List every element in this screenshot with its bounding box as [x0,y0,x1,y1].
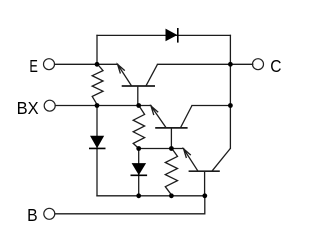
wire E lead [55,63,118,65]
node dot bottom x D2 [136,193,141,198]
node dot BX x Q1 base [136,103,141,108]
diode D2 (middle column, pointing down) [131,164,148,176]
wire left rail top segment [96,35,98,64]
terminal circle BX [44,100,55,111]
wire right rail [229,35,231,148]
diode D1 (left column, pointing down) [89,136,106,148]
node dot bottom x R3 [169,193,174,198]
transistor Q1 [118,64,158,105]
transistor Q3 [184,148,231,195]
svg-text:BX: BX [17,98,39,118]
resistor R2 [133,106,144,149]
resistor R1 [92,64,103,105]
svg-text:C: C [270,56,281,76]
node dot Q2 collector x right rail [228,103,233,108]
node dot E x left rail [95,62,100,67]
node dot BX x left rail [95,103,100,108]
node dot bottom x Q3 base x B [202,193,207,198]
node dot Q2 base x D2 [136,146,141,151]
wire Q2 collector line [192,105,230,107]
transistor Q2 [151,106,192,149]
terminal circle B [44,208,55,219]
node dot Q2 base x R3 [169,146,174,151]
node dot C x right rail [228,62,233,67]
svg-text:E: E [29,56,38,76]
wire node line (Q2 base node) [139,148,184,150]
terminal circle E [44,59,55,70]
resistor R3 [165,148,177,195]
diode D4 (flyback, top line, pointing right) [166,28,178,43]
wire top line E-rail to C-rail [97,34,230,36]
wire bottom line [97,195,205,197]
wire B lead [55,196,205,214]
svg-text:B: B [27,205,37,225]
wire left rail lower segment through D1 [96,106,98,196]
wire D2 column [138,149,140,196]
wire C lead / Q1 collector line [158,63,253,65]
wire BX lead [55,105,151,107]
terminal circle C [253,59,264,70]
